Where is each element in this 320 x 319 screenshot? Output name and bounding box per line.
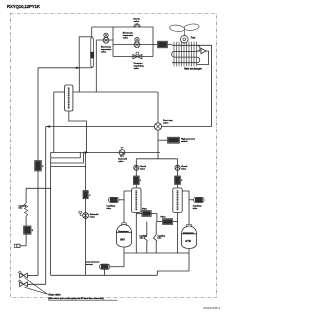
wire: left vertical x=38 liquid line to liquid stop valve (with filter): [37, 68, 39, 161]
wire: liquid line y=67.8: [38, 67, 79, 69]
svg-text:valve: valve: [181, 168, 187, 170]
high pressure switch: [158, 137, 196, 143]
svg-text:1: 1: [140, 180, 141, 182]
svg-text:2: 2: [181, 180, 182, 182]
capillary zigzag (INV oil): [140, 222, 148, 253]
wire: 4wv bottom port down: [157, 130, 159, 159]
wire: INV bottom stub: [123, 247, 125, 267]
filter (oil line STD): [157, 215, 178, 224]
solenoid valve (left branch, dark): [24, 226, 34, 246]
svg-text:Stop valve: Stop valve: [48, 294, 61, 297]
fins: [174, 42, 197, 67]
wire: left vertical x=45.7 from four way valve to gas stop valve: [45, 127, 47, 285]
wire: INV discharge riser: [124, 191, 132, 223]
electronic expansion valve EEV1 (subcool): [96, 33, 113, 53]
wire: suction line y=92 into accumulator: [54, 91, 65, 93]
svg-text:valve: valve: [140, 168, 146, 170]
wire: suction line from accumulator to 4wv top: [73, 91, 158, 93]
svg-text:tube: tube: [19, 207, 23, 210]
dashed border frame: [11, 14, 217, 298]
subcooler trombone coil: [51, 153, 87, 167]
wire: accumulator bottom pipe: [69, 111, 87, 153]
wire: left vertical x=50.6: [50, 167, 52, 276]
svg-text:Compressor: Compressor: [183, 233, 194, 235]
wire: four way valve right line: [162, 126, 212, 128]
check valve (STD discharge): [175, 165, 188, 170]
wire: main line to heat exchanger: [153, 44, 172, 46]
svg-text:INV: INV: [120, 238, 125, 242]
wire: tee down from liquid line to accumulator line: [78, 68, 80, 92]
svg-text:Compressor: Compressor: [118, 231, 129, 233]
oil separator (INV): [132, 188, 141, 213]
capillary (dark, on oil return line): [83, 191, 91, 199]
service port (left branch): [14, 244, 26, 247]
svg-text:valve: valve: [118, 161, 124, 163]
svg-text:Filter: Filter: [161, 215, 166, 218]
svg-text:(With service port on-site pip: (With service port on-site piping side Ø…: [48, 297, 104, 300]
wire: vertical x=91.7 from 27 down to subcool HX top: [91, 27, 93, 37]
muffler (INV): [133, 176, 141, 185]
svg-text:sensor: sensor: [86, 263, 93, 266]
svg-text:RXYQ10,12PY1K: RXYQ10,12PY1K: [7, 4, 41, 9]
stop valve label with leaders: [25, 278, 118, 300]
muffler (STD): [175, 176, 183, 185]
capillary with filter (to accumulator): [90, 38, 96, 92]
check valve (INV discharge): [134, 165, 147, 170]
wire: branch header y=158.8: [136, 158, 177, 160]
svg-text:tube: tube: [158, 236, 162, 239]
solenoid valve 2 (oil return): [79, 153, 99, 276]
svg-text:switch: switch: [181, 140, 188, 143]
svg-text:valve: valve: [101, 52, 107, 54]
fan: [169, 23, 199, 43]
wire: oil return from separator 1: [135, 213, 137, 254]
solenoid valve 1 (hot gas): [85, 148, 160, 163]
wire: step from suction rail up: [157, 271, 189, 275]
wire: long bottom line y=275.3: [51, 274, 158, 276]
electronic expansion valve EEV2 (main): [113, 32, 153, 48]
wire: 4wv left line with arrow: [46, 126, 155, 128]
svg-text:Fan: Fan: [191, 37, 196, 40]
low pressure sensor: [86, 261, 124, 276]
stop valve (liquid): [18, 271, 38, 278]
svg-text:valve: valve: [123, 38, 129, 40]
check valve (top bypass): [133, 19, 140, 28]
wire: left branch down: [135, 159, 137, 188]
svg-text:valve: valve: [134, 21, 140, 23]
oil separator (STD): [173, 188, 182, 213]
svg-text:STD: STD: [185, 239, 191, 243]
wire: STD discharge riser: [182, 191, 189, 224]
wire: gas line down right side: [197, 45, 212, 126]
arrow on liquid line: [76, 67, 80, 69]
capillary zigzag (STD oil): [154, 222, 166, 253]
accumulator: [65, 85, 73, 111]
svg-text:4TW27255-1: 4TW27255-1: [203, 306, 221, 310]
wire: STD bottom stub: [188, 249, 190, 271]
filter (left line): [35, 161, 45, 172]
svg-text:valve: valve: [134, 68, 140, 70]
svg-text:Heat exchanger: Heat exchanger: [184, 68, 202, 71]
svg-text:tube: tube: [140, 236, 144, 239]
wire: oil return from separator 2: [177, 213, 179, 254]
wire: bridge left vertical x=113: [112, 27, 114, 57]
wire: branch line y=188.3: [26, 187, 50, 189]
svg-text:Filter: Filter: [142, 207, 147, 210]
compressor INV: [117, 223, 132, 247]
capillary tube (STD oil return): [189, 197, 204, 210]
heat exchanger coil: [172, 42, 202, 71]
stop valve (gas): [18, 280, 46, 287]
pressure regulating valve: [113, 52, 153, 70]
four way valve: [154, 120, 173, 130]
distributor triangle out of heat exchanger: [197, 48, 209, 64]
wire: 4wv top port to suction line y=92: [157, 92, 159, 123]
wire: bridge right vertical x=153: [152, 27, 154, 57]
svg-text:valve: valve: [90, 217, 96, 219]
compressor STD: [182, 224, 197, 248]
filter (oil line INV): [136, 207, 157, 221]
arrow on 4wv left line: [46, 125, 50, 127]
filter (before heat exchanger): [158, 41, 168, 48]
wire: left vertical from suction to subcooler coil: [53, 92, 55, 153]
capillary zigzag (left branch): [19, 188, 28, 226]
wire: top rail y=27 from x=91.7 to 153: [92, 26, 153, 28]
svg-text:valve: valve: [163, 123, 169, 125]
wire: right branch down: [177, 159, 179, 188]
wire: oil equalization line y=253: [124, 252, 189, 254]
capillary tube (INV oil return): [107, 197, 125, 210]
subcool heat exchanger (plate) rectangle: [79, 37, 92, 68]
